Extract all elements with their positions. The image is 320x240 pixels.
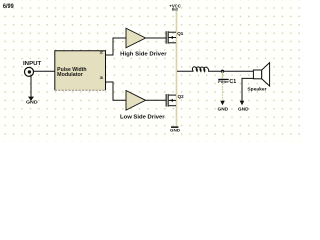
svg-text:2: 2 xyxy=(100,50,104,54)
wire low driver to Q2 gate xyxy=(146,99,166,101)
svg-text:6/99: 6/99 xyxy=(3,3,14,10)
wire output node to filter xyxy=(177,70,194,72)
svg-text:GND: GND xyxy=(26,100,38,105)
pin 3 (bottom output of modulator) xyxy=(100,76,114,82)
wire high driver to Q1 gate xyxy=(146,37,166,39)
svg-text:GND: GND xyxy=(238,106,249,111)
svg-text:High Side Driver: High Side Driver xyxy=(120,52,166,58)
low side driver buffer xyxy=(120,91,165,121)
svg-text:INPUT: INPUT xyxy=(23,61,42,67)
svg-text:C1: C1 xyxy=(229,79,236,85)
svg-text:GND: GND xyxy=(170,129,181,133)
svg-text:Filter: Filter xyxy=(218,80,230,84)
svg-text:Q1: Q1 xyxy=(177,31,183,37)
transistor Q1 xyxy=(166,31,184,44)
wire modulator pin3 to low side driver xyxy=(113,82,126,101)
capacitor C1 Filter xyxy=(218,71,236,101)
ground (speaker) xyxy=(238,101,249,112)
ground (capacitor) xyxy=(218,101,229,112)
ground (input) xyxy=(26,97,38,105)
transistor Q2 xyxy=(166,94,184,107)
wire inductor to speaker xyxy=(209,70,254,72)
wire speaker return to ground xyxy=(242,78,253,101)
speaker xyxy=(247,63,269,93)
ground (power rail, bar style) xyxy=(170,126,181,132)
wire input to modulator xyxy=(33,70,55,72)
svg-text:Q2: Q2 xyxy=(178,94,184,100)
power rail net VCC (vertical) xyxy=(176,11,178,127)
svg-text:Modulator: Modulator xyxy=(57,72,83,78)
junction node xyxy=(221,70,224,73)
svg-text:3: 3 xyxy=(100,76,104,80)
svg-text:Speaker: Speaker xyxy=(247,87,266,93)
inductor (filter coil) xyxy=(192,67,208,72)
high side driver buffer xyxy=(120,28,166,57)
port INPUT xyxy=(23,61,42,76)
pulse width modulator box U1 xyxy=(55,51,106,90)
pin 2 (top output of modulator) xyxy=(100,50,114,55)
svg-text:Batt: Batt xyxy=(172,8,179,12)
wire modulator pin2 to high side driver xyxy=(113,38,126,56)
power symbol +VCC xyxy=(169,4,180,12)
svg-text:Low Side Driver: Low Side Driver xyxy=(120,115,165,121)
svg-text:GND: GND xyxy=(218,106,229,111)
wire input to ground xyxy=(30,75,32,97)
